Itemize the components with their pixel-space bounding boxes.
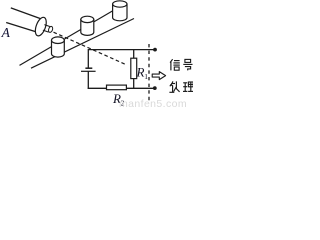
conveyor belt front edge line: [31, 19, 134, 69]
circuit left wire lower segment: [87, 71, 89, 89]
nozzle tip ellipse: [48, 26, 54, 33]
circuit top wire: [88, 49, 155, 51]
text 理 (li): [183, 82, 193, 91]
circuit left wire upper segment: [87, 49, 89, 68]
R1 branch top wire: [133, 50, 135, 59]
dashed gamma ray from nozzle to detector R1: [54, 32, 126, 64]
battery short plate: [85, 67, 92, 69]
resistor R1 box: [131, 58, 137, 78]
text 信 (xin): [170, 59, 180, 70]
can 3 on belt: [113, 1, 127, 21]
svg-text:manfen5.com: manfen5.com: [119, 98, 187, 108]
source tube A body: [6, 8, 43, 33]
source tube A end face ellipse: [33, 16, 48, 37]
source tube nozzle: [43, 25, 50, 32]
circuit bottom wire left segment: [88, 87, 107, 89]
conveyor belt back edge line: [20, 9, 117, 66]
text 处 (chu): [169, 81, 179, 92]
resistor R2 box: [107, 85, 127, 90]
R1 branch bottom wire: [133, 79, 135, 89]
node dot bottom right: [153, 86, 157, 90]
circuit bottom wire right segment: [126, 87, 154, 89]
text 号 (hao): [183, 59, 192, 70]
svg-text:R: R: [136, 64, 145, 79]
can 1 on belt: [52, 37, 65, 57]
dashed separator line: [148, 44, 150, 102]
can 2 on belt: [81, 16, 94, 35]
svg-text:1: 1: [144, 72, 148, 81]
block arrow to signal processor: [152, 72, 165, 80]
node dot top right: [153, 48, 157, 52]
battery long plate: [81, 70, 96, 72]
svg-text:A: A: [1, 25, 11, 40]
